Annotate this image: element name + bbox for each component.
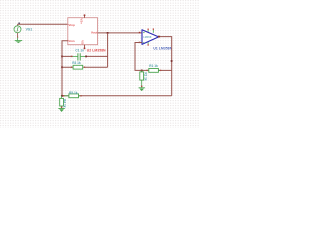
node junction left rail / C1 — [61, 56, 63, 58]
svg-text:VS-: VS- — [80, 40, 84, 45]
wire VG1 top to U2 Vinp — [18, 23, 68, 25]
svg-text:R2 1k: R2 1k — [144, 72, 148, 81]
resistor R4 vertical — [60, 96, 64, 108]
node junction at Vout — [107, 32, 109, 34]
ground below VG1 — [15, 37, 23, 43]
resistor R5 — [63, 94, 81, 98]
op-amp U1 plus mark — [143, 32, 144, 33]
node U1 supply pin tips — [148, 29, 149, 30]
pin VS+ of U2 — [84, 15, 86, 18]
node R5 left terminal — [63, 95, 64, 96]
wire mid rail down — [107, 33, 109, 67]
node R5 right terminal — [80, 95, 81, 96]
svg-text:VG1: VG1 — [26, 27, 33, 31]
pin VS- of U2 — [84, 45, 86, 49]
node junction feedback / R2 — [141, 70, 143, 72]
svg-text:R5 1k: R5 1k — [69, 91, 78, 95]
ground below R2 — [139, 88, 145, 91]
ground below R4 — [58, 109, 64, 113]
wire U1 output — [158, 37, 172, 96]
node R1 right terminal — [160, 70, 161, 71]
op-amp U1 supply stubs — [148, 30, 153, 45]
svg-text:R3 1k: R3 1k — [72, 61, 81, 65]
node junction left rail / R3 — [61, 66, 63, 68]
node R2 bottom terminal — [141, 86, 142, 87]
svg-text:C1 1n: C1 1n — [75, 48, 84, 52]
svg-text:R4 1k: R4 1k — [63, 99, 67, 108]
svg-text:Vinp: Vinp — [68, 23, 75, 27]
wire U1 -input — [135, 43, 172, 71]
resistor R2 vertical — [140, 70, 144, 87]
node U1 input pin markers — [139, 32, 141, 33]
svg-text:Vinn: Vinn — [68, 39, 75, 43]
capacitor C1 — [72, 53, 85, 60]
op-amp U1 minus mark — [143, 41, 144, 43]
node R3 left terminal — [71, 67, 72, 68]
node U1 output pin dot — [158, 36, 160, 38]
svg-text:LM358: LM358 — [143, 35, 152, 39]
wire bottom return — [62, 95, 172, 97]
op-amp macro U2 box — [68, 18, 98, 45]
node VG1 terminal dot — [18, 23, 20, 25]
node C1 left terminal — [71, 56, 72, 57]
node junction bottom left — [61, 95, 63, 97]
resistor R1 — [147, 69, 160, 73]
node junction output rail segment — [171, 60, 173, 62]
svg-text:VS+: VS+ — [80, 18, 84, 24]
svg-text:U1 LM358N: U1 LM358N — [153, 46, 172, 50]
voltage source VG1 — [14, 24, 21, 37]
svg-text:R1 1k: R1 1k — [149, 64, 158, 68]
svg-text:U2 LM358N: U2 LM358N — [87, 48, 106, 52]
node C1 right terminal junction — [85, 56, 87, 58]
wire left rail Vinn down — [62, 41, 68, 96]
wire R3 branch — [62, 66, 108, 68]
node R4 bottom terminal — [61, 107, 62, 108]
svg-text:Vout: Vout — [91, 31, 97, 35]
wire U2 Vout to U1 +input — [98, 32, 142, 34]
node R3 right terminal — [84, 67, 85, 68]
wire C1 branch — [62, 55, 108, 57]
op-amp U1 triangle — [142, 30, 159, 45]
node R1 left terminal — [146, 70, 147, 71]
resistor R3 — [72, 65, 85, 69]
